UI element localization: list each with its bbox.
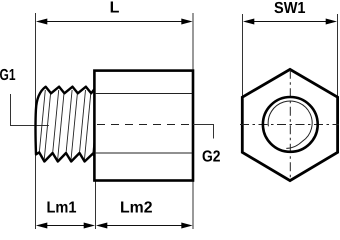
svg-text:G2: G2	[202, 149, 221, 166]
svg-text:L: L	[110, 0, 120, 17]
svg-text:Lm2: Lm2	[120, 200, 153, 217]
svg-text:Lm1: Lm1	[47, 200, 77, 217]
svg-text:SW1: SW1	[274, 0, 306, 17]
svg-text:G1: G1	[0, 67, 16, 84]
